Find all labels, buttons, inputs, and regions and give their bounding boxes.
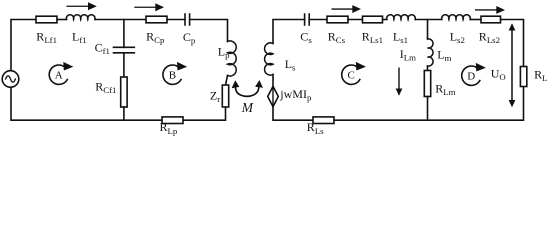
wire to top-right corner of loop B (190, 20, 228, 42)
svg-text:C: C (348, 69, 355, 81)
loop D arrow (462, 63, 486, 86)
wire Z_r to bottom (183, 107, 226, 120)
current arrow over L_f1 (67, 2, 97, 10)
AC source V1 (2, 71, 19, 88)
node junction C_f1 branch (123, 20, 125, 48)
inductor L_s (265, 43, 273, 75)
capacitor C_p (185, 14, 190, 25)
wire (383, 19, 387, 21)
wire to right branch (501, 20, 524, 67)
wire left vertical bottom (11, 87, 162, 120)
current arrow over R_Cp (134, 3, 164, 11)
loop A arrow (49, 62, 73, 85)
resistor R_Cf1 (121, 77, 127, 107)
wire L_p to Z_r (226, 76, 228, 86)
svg-text:A: A (55, 69, 63, 81)
resistor R_L (520, 67, 526, 87)
wire C_f1 to R_Cf1 (123, 53, 125, 77)
wire L_m to R_Lm (427, 66, 429, 71)
capacitor C_s (305, 14, 310, 25)
voltage arrow U_O (double headed) (509, 23, 516, 107)
inductor L_s2 (442, 15, 471, 20)
bottom wire to R_L branch (334, 87, 524, 121)
resistor R_Ls2 (481, 16, 501, 23)
wire (57, 19, 67, 21)
wire through node to L_s2 (415, 19, 442, 21)
resistor R_Cp (146, 16, 167, 23)
resistor R_Cs (327, 16, 348, 23)
wire (309, 19, 327, 21)
current arrow over R_Cs (332, 5, 362, 13)
inductor L_m (428, 39, 434, 66)
resistor R_Lm (424, 71, 430, 97)
node junction L_m branch (427, 20, 429, 40)
wire left vertical top (11, 20, 36, 71)
resistor R_Ls (313, 117, 334, 124)
wire diamond to bottom wire (273, 107, 313, 121)
loop B arrow (163, 62, 187, 85)
resistor R_Ls1 (363, 16, 383, 23)
resistor R_Lp (162, 117, 183, 124)
impedance Z_r (222, 85, 228, 107)
wire (167, 19, 185, 21)
dependent source jwMI_p (268, 86, 279, 106)
mutual coupling M arrow (232, 80, 263, 96)
wire R_Lm to bottom (427, 97, 429, 121)
resistor R_Lf1 (36, 16, 57, 23)
secondary: top-left corner at L_s (273, 20, 305, 44)
svg-text:D: D (467, 70, 475, 82)
wire L_s to diamond (272, 75, 274, 87)
svg-text:M: M (241, 100, 254, 115)
inductor L_p (228, 41, 237, 76)
wire R_Cf1 to bottom (123, 107, 125, 120)
capacitor C_f1 (114, 47, 135, 53)
loop C arrow (342, 62, 366, 85)
inductor L_s1 (387, 15, 416, 20)
current arrow I_Lm (396, 68, 403, 96)
wire (470, 19, 481, 21)
wire to node and R_Cp (95, 19, 146, 21)
svg-text:B: B (169, 69, 176, 81)
inductor L_f1 (66, 15, 95, 20)
current arrow over R_Ls2 (475, 6, 505, 14)
wire (348, 19, 363, 21)
